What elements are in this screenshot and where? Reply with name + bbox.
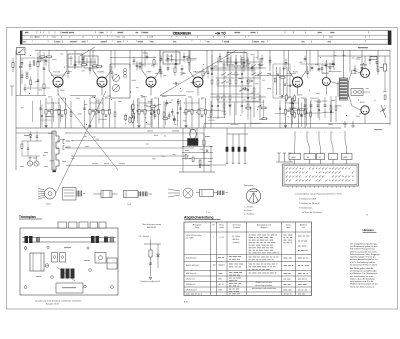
- AM-FM switch cluster vertical wires: [211, 54, 213, 116]
- resistor R16: [151, 98, 153, 126]
- resistor R10: [102, 98, 104, 126]
- wire horizontal connect: [45, 116, 55, 118]
- tube V4 EABC80 envelope: [193, 77, 203, 87]
- dial drum knob 6: [104, 237, 108, 243]
- wire main bottom rail: [16, 127, 341, 129]
- wire to bottom rail R23: [205, 126, 207, 129]
- wire V6 down: [325, 86, 327, 96]
- dial rail upper line: [22, 237, 116, 239]
- wire to bottom rail R20: [185, 126, 187, 129]
- wire to bottom rail R3: [51, 126, 53, 129]
- AF cluster vertical c: [196, 128, 198, 140]
- EA wire horizontal top: [144, 243, 161, 245]
- resistor R14: [138, 98, 140, 126]
- wire vertical drop: [317, 50, 319, 66]
- electrolytic pictorial striped lead: [76, 191, 78, 197]
- wire chassis segment b: [70, 95, 96, 97]
- interstage component group 1: [129, 118, 131, 123]
- oscillator coil L2: [124, 69, 127, 72]
- wire grid V-right V3: [154, 71, 160, 79]
- capacitor C60: [285, 59, 287, 63]
- upper band horizontal wire k: [300, 63, 335, 65]
- switch contact: [240, 89, 244, 92]
- resistor R5: [65, 98, 67, 126]
- wire to bottom rail R32: [298, 126, 300, 129]
- resistor tone: [335, 96, 337, 122]
- capacitor C54: [219, 53, 221, 57]
- table row 1 instruction line 1: [249, 237, 254, 238]
- capacitor C86: [199, 165, 201, 167]
- electrolytic C98: [244, 147, 246, 152]
- resistor horizontal left: [39, 56, 46, 58]
- wire vertical drop: [333, 50, 335, 70]
- capacitor upper right: [332, 60, 334, 63]
- wire lower connection: [199, 164, 226, 166]
- capacitor C76: [217, 104, 219, 107]
- left column capacitor Cb: [24, 87, 27, 89]
- svg-text:10,7 MHz: 10,7 MHz: [232, 236, 240, 238]
- wire horizontal connect: [250, 122, 261, 124]
- tuning capacitor section a: [113, 75, 120, 82]
- capacitor C85: [206, 149, 208, 151]
- wire vertical drop: [89, 50, 91, 65]
- stage label smudges: [288, 96, 292, 99]
- antenna terminal box: [17, 48, 26, 55]
- capacitor C62: [329, 63, 331, 67]
- tube V3 electrodes: [149, 84, 150, 85]
- wire to bottom rail R11: [109, 126, 111, 129]
- svg-text:Mess-: Mess-: [219, 225, 224, 227]
- resistor R11: [109, 98, 111, 126]
- long diagonal to connector: [160, 51, 236, 96]
- chassis right edge box: [107, 258, 117, 269]
- transistor Q1: [27, 161, 32, 166]
- wire vertical drop: [283, 50, 285, 70]
- terminal bar C97: [238, 162, 241, 164]
- svg-text:10,7 MHz: 10,7 MHz: [186, 238, 194, 240]
- wire grid V-right V1: [61, 71, 67, 79]
- wire horizontal connect upper: [186, 91, 194, 93]
- wire hairline drop: [306, 98, 308, 126]
- svg-text:Trimmplan: Trimmplan: [19, 215, 36, 219]
- wire cathode down V1: [57, 87, 59, 96]
- stage small cap upper: [207, 71, 210, 73]
- wire V7 left: [352, 70, 361, 73]
- label right lower: [374, 129, 382, 130]
- chassis screw hole 1: [24, 247, 27, 250]
- wire lower rail mid: [204, 123, 390, 125]
- EA wire vertical: [150, 240, 152, 277]
- capacitor C52: [183, 52, 185, 56]
- upper band horizontal wire j: [165, 59, 196, 61]
- EA capacitor C97: [149, 262, 152, 264]
- capacitor C44: [45, 56, 47, 60]
- ratio detector transformer T3 can: [273, 64, 290, 98]
- table row 1 instruction line 5: [249, 247, 252, 248]
- capacitor stage extra left V5: [279, 107, 281, 109]
- stage small cap upper: [67, 71, 70, 73]
- wire V-right riser V3: [159, 50, 161, 70]
- AF cluster dots: [183, 146, 184, 147]
- svg-text:± 10 % sind zulässig und be-: ± 10 % sind zulässig und be-: [350, 262, 376, 264]
- antenna coil network resistor Rd: [43, 84, 45, 89]
- resistor horizontal left: [80, 64, 87, 66]
- wire vertical drop: [377, 50, 379, 67]
- tube V5 electrodes: [295, 84, 296, 85]
- stage small cap upper: [160, 71, 163, 73]
- wire mid horizontal f: [255, 75, 292, 77]
- ratio detector small parts: [277, 73, 279, 75]
- electrolytic C97: [238, 147, 240, 152]
- capacitor C43: [37, 57, 39, 61]
- wire stage link a V1: [46, 102, 59, 104]
- terminal bar C98: [244, 162, 247, 164]
- wire hairline drop: [263, 100, 265, 120]
- capacitor upper band: [139, 63, 141, 66]
- wire horizontal connect upper: [227, 64, 234, 66]
- capacitor C8: [92, 109, 95, 111]
- wire to bottom rail R16: [151, 126, 153, 129]
- wire horizontal connect: [231, 124, 239, 126]
- wire stage link b V1: [52, 110, 66, 112]
- svg-text:17: 17: [366, 214, 368, 216]
- wire stage link a V5: [286, 102, 299, 104]
- wire bundle labels: [92, 162, 98, 165]
- dial scale row 1 ticks and station names: [25, 32, 28, 33]
- capacitor pictorial striped lead: [138, 192, 140, 197]
- wire horizontal connect: [322, 111, 334, 113]
- capacitor tone: [324, 104, 327, 106]
- wire coupling to right: [363, 91, 370, 93]
- dial scale row 2 ticks: [24, 36, 26, 37]
- dial rail lower line: [22, 241, 116, 243]
- wire antenna lead: [20, 55, 22, 67]
- resistor R20: [185, 98, 187, 126]
- wire V6 up: [325, 60, 327, 78]
- transistor Q2: [34, 161, 39, 166]
- wire V8 down: [364, 114, 366, 123]
- resistor horizontal: [149, 105, 156, 107]
- wire hairline drop: [300, 102, 302, 126]
- svg-text:Die angegebenen Spannungs-: Die angegebenen Spannungs-: [350, 244, 377, 246]
- wire riser to rail b: [226, 128, 228, 134]
- wire hairline drop: [137, 98, 139, 123]
- value label near C50: [170, 56, 174, 57]
- capacitor upper band: [133, 57, 135, 61]
- wire horizontal connect: [288, 107, 295, 109]
- capacitor upper right: [318, 65, 320, 68]
- pushbutton unit button AUS: [342, 154, 353, 160]
- capacitor C81: [27, 147, 29, 149]
- AF cluster horizontal a: [182, 146, 213, 148]
- tube V1 electrodes: [56, 84, 57, 85]
- bracket label E2: [62, 146, 64, 150]
- EA resistor R95: [149, 250, 152, 257]
- svg-text:+IH TO: +IH TO: [215, 31, 226, 35]
- speaker coupling box: [351, 89, 363, 96]
- resistor R82: [199, 160, 201, 164]
- svg-text:auf Minimum. Der Messbereich: auf Minimum. Der Messbereich: [350, 273, 378, 275]
- capacitor C65: [369, 55, 371, 59]
- capacitor C49: [159, 66, 161, 70]
- wire grid V-right V4: [201, 71, 207, 79]
- chassis trimmer dark 1: [61, 269, 65, 279]
- chassis pointer diagonal: [57, 267, 75, 281]
- wire grid V-left V5: [289, 71, 295, 79]
- interstage component group 2: [171, 111, 174, 113]
- wire V-right riser V2: [110, 50, 112, 70]
- capacitor C88: [241, 80, 243, 83]
- component value labels scatter: [372, 56, 376, 59]
- wire to bottom rail R33: [304, 126, 306, 129]
- lower left control sub-circuit wire a: [15, 128, 17, 170]
- resistor tone: [330, 96, 332, 122]
- dial scale left end cap: [20, 31, 22, 45]
- power section rectifier: [383, 64, 386, 71]
- capacitor C3: [61, 114, 64, 116]
- value label near C66: [380, 67, 384, 68]
- capacitor C14: [141, 109, 144, 111]
- wire horizontal connect: [208, 119, 214, 121]
- resistor horizontal: [279, 76, 286, 78]
- capacitor upper band: [160, 55, 162, 59]
- capacitor C31: [300, 114, 303, 116]
- wire hairline drop: [41, 105, 43, 127]
- capacitor upper band: [167, 64, 169, 68]
- capacitor horizontal: [242, 87, 244, 89]
- wire hairline drop: [330, 101, 332, 122]
- capacitor C21: [201, 114, 204, 116]
- chassis screw hole 4: [87, 247, 89, 249]
- driver transformer oval: [190, 129, 196, 139]
- svg-text:wobbeln: wobbeln: [233, 242, 240, 244]
- chassis top tabs: [58, 222, 67, 228]
- labels lower-left: [24, 135, 29, 136]
- DIN socket symbol b: [352, 121, 354, 128]
- wire hairline drop: [52, 102, 54, 122]
- resistor R80: [185, 155, 187, 159]
- EA ground: [149, 277, 152, 279]
- wire mid horizontal e: [210, 67, 266, 69]
- AF cluster vertical a: [182, 128, 184, 172]
- wire chassis segment a: [16, 95, 46, 97]
- wire mid horizontal g: [110, 57, 156, 59]
- wire hairline drop: [234, 103, 236, 123]
- wire horizontal connect upper: [326, 66, 334, 68]
- capacitor horizontal: [173, 82, 175, 84]
- wire stage extra left V1: [40, 100, 42, 128]
- wires to pushbutton connector: [294, 131, 296, 140]
- capacitor C15: [154, 114, 157, 116]
- capacitor stage extra left V2: [83, 107, 85, 109]
- capacitor C57: [251, 64, 253, 68]
- capacitor C61: [321, 64, 323, 68]
- dial scale row 3 ticks and wavelengths: [23, 41, 26, 42]
- wire grid V-left V1: [49, 71, 55, 79]
- wire drop C98: [244, 134, 246, 147]
- wire to bottom rail R17: [158, 126, 160, 129]
- wire hairline drop: [224, 103, 226, 118]
- wire to bottom rail R4: [58, 126, 60, 129]
- wire to bottom rail R22: [198, 126, 200, 129]
- resistor R76: [241, 64, 243, 68]
- resistor horizontal: [245, 107, 252, 109]
- resistor R32: [298, 98, 300, 126]
- antenna coil network cap Cd: [43, 67, 46, 69]
- wire vertical drop: [39, 50, 41, 62]
- ground stage V3: [137, 125, 140, 127]
- value label near C64: [364, 64, 368, 65]
- wire vertical drop: [144, 50, 146, 67]
- wire hairline drop: [150, 99, 152, 127]
- wire V-left riser V1: [48, 50, 50, 70]
- stage small cap upper: [111, 71, 114, 73]
- capacitor horizontal: [279, 95, 281, 97]
- dial scale frame: [20, 30, 391, 32]
- switch contact: [222, 73, 226, 76]
- wire to bottom rail R2: [45, 126, 47, 129]
- svg-text:a. G1: a. G1: [219, 237, 223, 239]
- tube V7 EL95 envelope: [361, 69, 370, 78]
- pushbutton switch block body: [283, 164, 359, 186]
- ground stage V4: [184, 125, 187, 127]
- chassis extra circle b: [84, 285, 86, 287]
- stage small cap upper: [306, 71, 309, 73]
- resistor stage extra right V2: [114, 112, 116, 116]
- pushbutton unit button M: [317, 154, 325, 160]
- wire V7 up: [364, 56, 366, 69]
- svg-text:Abgleichanleitung: Abgleichanleitung: [184, 215, 213, 219]
- resistor R73: [235, 64, 237, 68]
- resistor horizontal left: [46, 56, 53, 58]
- stage label smudges: [188, 96, 192, 99]
- resistor horizontal: [246, 80, 253, 82]
- wire grid V-left V3: [142, 71, 148, 79]
- wire horizontal connect upper: [231, 74, 240, 76]
- capacitor C48: [136, 61, 138, 65]
- table row 1 instruction line 7: [249, 252, 252, 253]
- wire horizontal connect: [307, 112, 323, 114]
- mains label: [358, 47, 368, 48]
- capacitor C20: [188, 109, 191, 111]
- tuning capacitor section b: [113, 85, 120, 92]
- capacitor C71: [211, 72, 213, 75]
- resistor upper band: [153, 56, 155, 60]
- svg-text:KW-Bereich: KW-Bereich: [186, 284, 196, 286]
- capacitor horizontal: [190, 82, 192, 84]
- capacitor C45: [74, 60, 76, 64]
- chassis bottom block: [56, 283, 83, 293]
- wire to bottom rail R8: [89, 126, 91, 129]
- wire hairline drop: [177, 99, 179, 127]
- wire hairline drop: [31, 101, 33, 122]
- resistor horizontal: [162, 117, 169, 119]
- wire hairline drop: [318, 99, 320, 120]
- table row 8 cells: [186, 294, 190, 295]
- svg-text:UKW-Bereich: UKW-Bereich: [186, 289, 197, 291]
- resistor R98 on drop: [203, 140, 205, 145]
- IF transformer T1 can: [68, 54, 82, 67]
- capacitor C59: [269, 57, 271, 61]
- table row 1 instruction line 3: [249, 242, 253, 243]
- svg-text:Regler kurz vor max.: Regler kurz vor max.: [256, 282, 273, 284]
- capacitor tone: [304, 104, 307, 106]
- stage label smudges: [92, 96, 96, 99]
- wire stage extra left V5: [279, 100, 281, 128]
- choke dark block: [188, 139, 199, 146]
- value label near C53: [214, 66, 218, 67]
- switch contact: [252, 73, 256, 76]
- chassis IF can 1: [52, 253, 58, 263]
- electrolytic C96: [232, 147, 234, 152]
- capacitor C1: [19, 66, 22, 68]
- wire vertical drop: [309, 50, 311, 72]
- wire stage extra left V4: [180, 100, 182, 128]
- capacitor C41: [21, 59, 23, 63]
- EA diode D1: [157, 254, 160, 257]
- resistor R81: [192, 157, 194, 161]
- capacitor pictorial: [124, 191, 139, 198]
- wire drop C97: [238, 134, 240, 147]
- tube V5 EL84 envelope: [293, 77, 303, 87]
- wire horizontal connect upper: [53, 74, 66, 76]
- capacitor upper band: [181, 65, 183, 69]
- capacitor C2: [48, 109, 51, 111]
- wire vertical drop: [243, 50, 245, 71]
- resistor horizontal: [260, 107, 267, 109]
- wire hairline drop: [98, 99, 100, 123]
- wire stage extra right V4: [210, 101, 212, 128]
- table row 1 instruction line 0: [249, 235, 251, 236]
- AF cluster vertical d: [203, 133, 205, 172]
- svg-text:EL95: EL95: [360, 102, 364, 104]
- trimmer arrow top left: [80, 47, 95, 56]
- wire to bottom rail R30: [285, 126, 287, 129]
- chassis screw hole 2: [24, 286, 27, 289]
- svg-text:UKW: UKW: [291, 157, 296, 159]
- wire second top rail right section: [318, 55, 390, 57]
- wire to bottom rail R15: [144, 126, 146, 129]
- svg-text:1: 1: [213, 237, 214, 239]
- capacitor horizontal: [287, 85, 289, 87]
- dial drum dark knob 1: [25, 236, 29, 243]
- resistor R21: [191, 98, 193, 126]
- capacitor C47: [89, 65, 91, 69]
- wire horizontal connect: [207, 110, 221, 112]
- value label near C47: [92, 66, 96, 67]
- wire vertical drop: [159, 50, 161, 65]
- wire to bottom rail R21: [191, 126, 193, 129]
- svg-text:B 45: B 45: [184, 302, 188, 304]
- leader diagonal A: [58, 94, 118, 170]
- diode D2: [29, 135, 32, 138]
- value label near C62: [332, 64, 336, 65]
- capacitor C89: [241, 104, 243, 107]
- svg-text:EL95: EL95: [360, 64, 364, 66]
- resistor R8: [89, 98, 91, 126]
- DIN socket symbol a: [344, 121, 346, 128]
- resistor R15: [144, 98, 146, 126]
- resistor R74: [235, 72, 237, 76]
- wire hairline drop: [60, 105, 62, 123]
- wire horizontal connect upper: [351, 72, 357, 74]
- resistor R2: [45, 98, 47, 126]
- resistor R86: [259, 64, 261, 68]
- switch contact: [222, 81, 226, 84]
- wire stage link b V5: [292, 110, 306, 112]
- wire vertical drop: [114, 50, 116, 68]
- capacitor stage extra left V3: [132, 107, 134, 109]
